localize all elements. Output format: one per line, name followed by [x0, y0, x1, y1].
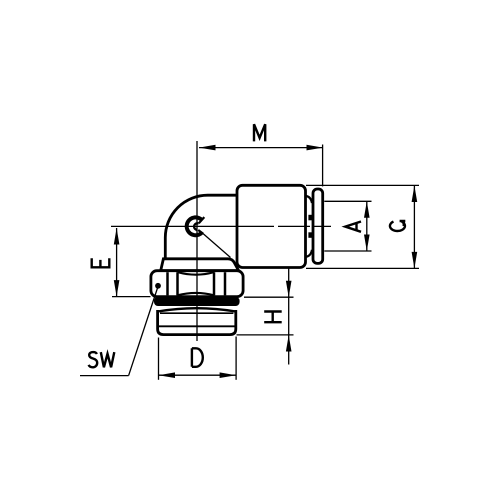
- orientation C-mark: [187, 217, 205, 235]
- dimension D line: [159, 374, 237, 376]
- dimension E line: [116, 228, 118, 297]
- dimension D left extension: [158, 338, 160, 380]
- dimension M right arrow: [307, 145, 324, 151]
- dimension H top extension: [244, 296, 294, 298]
- dimension D left arrow: [159, 372, 176, 378]
- hex nut crown top: [178, 272, 215, 275]
- dimension D right arrow: [220, 372, 237, 378]
- dimension M left arrow: [199, 145, 216, 151]
- dimension A line: [366, 201, 368, 251]
- label M: [254, 124, 265, 141]
- dimension A up arrow: [364, 201, 370, 218]
- thread shoulder arc: [158, 308, 236, 311]
- hex nut flat line 2: [176, 272, 179, 295]
- dimension G line: [413, 186, 415, 269]
- hex nut crown bottom: [178, 293, 215, 295]
- dimension H bottom extension: [237, 334, 294, 336]
- release ring bottom profile: [306, 250, 312, 257]
- hex nut flat line 3: [213, 272, 216, 295]
- SW leader: [129, 287, 158, 376]
- elbow body: [165, 195, 237, 259]
- label H: [264, 312, 282, 323]
- seal ring black band: [154, 297, 240, 306]
- thread stub: [158, 310, 236, 335]
- hex nut flat line 4: [224, 272, 227, 295]
- release ring lower lug: [308, 232, 313, 238]
- release ring upper lug: [308, 215, 313, 221]
- dimension A down arrow: [364, 235, 370, 252]
- dimension E down arrow: [114, 280, 120, 297]
- dimension G down arrow: [412, 252, 418, 269]
- dimension A bottom extension: [324, 250, 371, 252]
- sleeve: [237, 185, 306, 267]
- label A: [345, 222, 361, 232]
- collar: [161, 259, 239, 271]
- hex nut flat line 1: [166, 272, 169, 295]
- label D: [192, 348, 203, 367]
- horizontal centerline: [111, 225, 331, 227]
- dimension G top extension: [306, 184, 419, 186]
- SW underline: [80, 375, 129, 377]
- C-mark leader: [201, 232, 231, 258]
- label E: [92, 258, 110, 267]
- label SW: [89, 352, 98, 367]
- hex nut: [151, 271, 243, 297]
- vertical centerline: [196, 141, 198, 341]
- thread crest line: [160, 312, 233, 314]
- dimension H down arrow: [286, 281, 292, 298]
- dimension M line: [199, 147, 323, 149]
- thread chamfer line: [158, 325, 235, 327]
- SW leader dot: [155, 283, 161, 289]
- label G: [390, 222, 405, 231]
- dimension D right extension: [235, 337, 237, 380]
- dimension H up arrow: [286, 335, 292, 352]
- dimension M right extension: [322, 145, 324, 187]
- collet release button: [313, 189, 323, 263]
- release ring top profile: [306, 196, 312, 203]
- dimension E bottom extension: [112, 296, 151, 298]
- dimension G up arrow: [412, 186, 418, 203]
- dimension A top extension: [324, 200, 371, 202]
- dimension G bottom extension: [306, 267, 419, 269]
- dimension E up arrow: [114, 228, 120, 245]
- dimension H line: [288, 268, 290, 365]
